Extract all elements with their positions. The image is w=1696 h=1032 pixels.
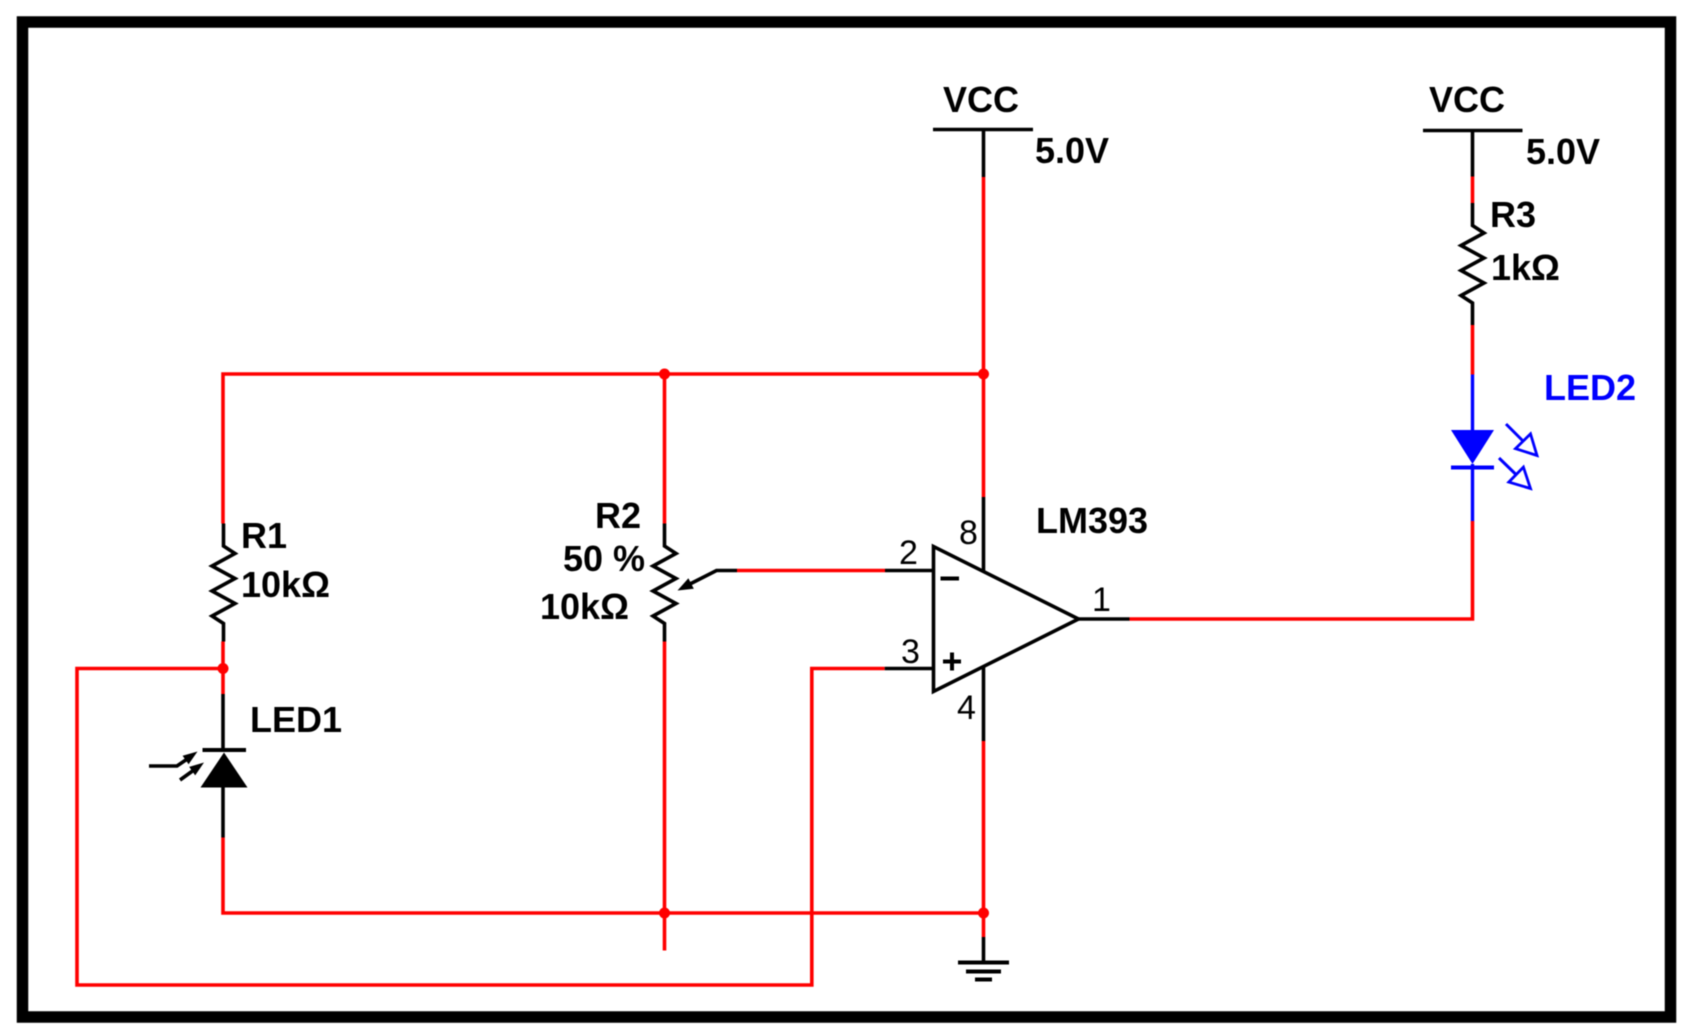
svg-text:3: 3 [901, 633, 920, 671]
led LED2 [1451, 375, 1537, 522]
wire R1 to LED1 [221, 642, 225, 695]
svg-text:LED2: LED2 [1544, 367, 1636, 408]
resistor R1 [212, 524, 235, 642]
wire pin 4 to ground [982, 741, 986, 937]
svg-text:VCC: VCC [1429, 79, 1505, 120]
node junction R1-LED1 [218, 663, 229, 674]
power VCC1 symbol [933, 130, 1033, 178]
svg-text:4: 4 [957, 689, 976, 727]
op-amp U1 LM393 [934, 547, 1079, 692]
potentiometer R2 [653, 524, 676, 642]
svg-text:10kΩ: 10kΩ [241, 564, 330, 605]
wire LED1 bottom and bottom bus [223, 838, 984, 914]
svg-text:R1: R1 [241, 515, 287, 556]
wire top bus [223, 374, 984, 524]
svg-text:1: 1 [1092, 581, 1111, 619]
pin 1 lead [1079, 617, 1130, 621]
svg-text:1kΩ: 1kΩ [1491, 247, 1560, 288]
wire R2 top [663, 374, 667, 524]
wire R3 to LED2 [1471, 325, 1475, 375]
wire output to LED2 [1130, 521, 1473, 619]
node junction top VCC [978, 369, 989, 380]
wire R2 bottom [663, 642, 667, 914]
svg-text:R2: R2 [595, 495, 641, 536]
pin 8 lead [982, 497, 986, 572]
pin 4 lead [982, 667, 986, 742]
pin 2 lead [885, 569, 934, 573]
svg-text:10kΩ: 10kΩ [540, 586, 629, 627]
potentiometer R2 wiper arrow [678, 571, 738, 591]
pin 3 lead [885, 667, 934, 671]
power VCC2 symbol [1423, 131, 1523, 177]
node junction bottom ground [978, 908, 989, 919]
svg-text:LM393: LM393 [1036, 500, 1148, 541]
wire wiper to pin 2 [737, 569, 885, 573]
svg-text:R3: R3 [1490, 194, 1536, 235]
wire stub below R2 junction [663, 913, 667, 951]
ground [958, 937, 1009, 980]
svg-text:5.0V: 5.0V [1526, 131, 1600, 172]
photodiode LED1 [149, 694, 248, 838]
svg-text:2: 2 [899, 534, 918, 572]
svg-text:5.0V: 5.0V [1035, 130, 1109, 171]
wire VCC2 to R3 [1471, 177, 1475, 204]
svg-text:LED1: LED1 [250, 699, 342, 740]
wire junction to left rail and bottom loop to pin 3 [77, 669, 885, 986]
svg-text:8: 8 [959, 514, 978, 552]
node junction bottom R2 [659, 908, 670, 919]
svg-text:50 %: 50 % [563, 538, 645, 579]
wire VCC1 down to pin 8 [982, 177, 986, 497]
svg-text:VCC: VCC [943, 79, 1019, 120]
resistor R3 [1461, 203, 1484, 325]
node junction top R2 [659, 369, 670, 380]
